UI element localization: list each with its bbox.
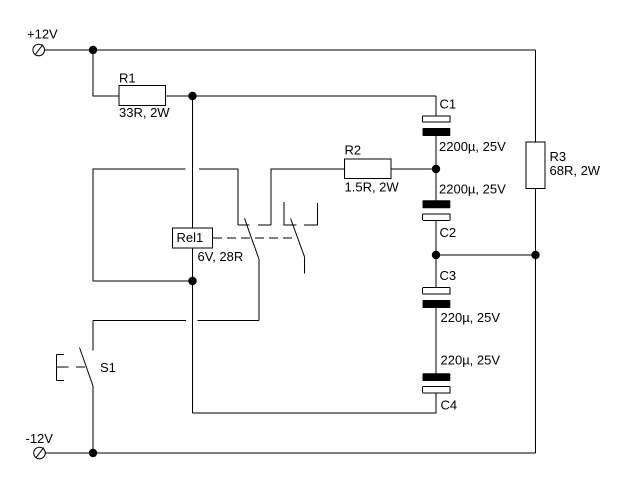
- wire C1 bottom to junction: [435, 136, 437, 201]
- relay contact 2 moving arm: [291, 219, 305, 258]
- wire from top rail down to R1 row: [93, 50, 119, 96]
- svg-text:C2: C2: [440, 225, 457, 240]
- relay contact 2 fixed terminal left: [284, 202, 296, 225]
- node junction C2-C3: [432, 251, 440, 259]
- svg-text:6V, 28R: 6V, 28R: [198, 249, 244, 264]
- wire left loop: [93, 169, 193, 281]
- svg-text:R1: R1: [119, 71, 136, 86]
- wire top rail: [45, 49, 536, 51]
- node junction coil bottom: [188, 277, 196, 285]
- wire R2 left: [271, 169, 345, 225]
- wire C2 bottom: [435, 220, 437, 255]
- svg-text:68R, 2W: 68R, 2W: [550, 163, 601, 178]
- svg-text:2200µ, 25V: 2200µ, 25V: [439, 139, 506, 154]
- relay contact 1 fixed terminal right: [258, 224, 271, 226]
- node junction R3 bottom: [531, 251, 539, 259]
- wire junction to C3: [435, 255, 437, 288]
- wire relay coil bottom down: [192, 248, 194, 413]
- wire R1 right to capacitor column: [166, 95, 436, 97]
- wire switch row left: [93, 320, 186, 322]
- svg-text:C3: C3: [440, 268, 457, 283]
- wire S1 bottom feed: [92, 386, 94, 453]
- capacitor C4: [423, 373, 451, 393]
- relay contact 2 fixed terminal right: [304, 203, 318, 225]
- relay contact 1 fixed terminal left foot: [238, 224, 249, 226]
- relay mechanical link dashed: [213, 237, 297, 239]
- resistor R2: [345, 159, 391, 179]
- switch S1 moving arm: [80, 348, 94, 387]
- wire right column lower: [535, 255, 537, 453]
- wire switch row right: [198, 320, 259, 322]
- node junction top-left: [89, 46, 97, 54]
- svg-text:220µ, 25V: 220µ, 25V: [441, 353, 501, 368]
- terminal -12V: [34, 447, 46, 459]
- wire right column upper: [535, 50, 537, 142]
- wire bottom rail: [45, 452, 535, 454]
- switch S1 pushbutton plunger: [57, 355, 86, 381]
- svg-text:33R, 2W: 33R, 2W: [119, 105, 170, 120]
- capacitor C1: [423, 116, 451, 136]
- node junction R1 right: [188, 92, 196, 100]
- wire S1 top feed: [92, 321, 94, 351]
- svg-text:1.5R, 2W: 1.5R, 2W: [345, 180, 400, 195]
- svg-text:R2: R2: [345, 143, 362, 158]
- svg-text:-12V: -12V: [26, 431, 54, 446]
- wire R3 bottom to junction: [535, 189, 537, 256]
- svg-text:C1: C1: [440, 97, 457, 112]
- resistor R3: [526, 142, 545, 189]
- svg-text:+12V: +12V: [27, 27, 58, 42]
- node junction R2 right: [432, 165, 440, 173]
- svg-text:220µ, 25V: 220µ, 25V: [441, 310, 501, 325]
- capacitor C3: [423, 288, 451, 308]
- wire left loop continued to contact: [199, 169, 238, 225]
- wire C3 to C4: [435, 308, 437, 374]
- wire contact 2 arm stub: [304, 257, 306, 273]
- wire R2 right: [391, 168, 436, 170]
- relay contact 1 moving arm: [245, 218, 259, 259]
- svg-text:Rel1: Rel1: [177, 230, 204, 245]
- wire relay coil top: [192, 96, 194, 228]
- resistor R1: [119, 86, 166, 106]
- node junction bottom-left: [89, 449, 97, 457]
- relay coil Rel1: [173, 228, 213, 248]
- wire contact 1 arm down: [258, 259, 260, 321]
- wire capacitor column top: [435, 96, 437, 116]
- wire middle row to R3 column: [436, 254, 536, 256]
- svg-text:C4: C4: [441, 398, 458, 413]
- svg-text:2200µ, 25V: 2200µ, 25V: [439, 182, 506, 197]
- capacitor C2: [423, 200, 451, 220]
- wire C4 bottom row: [193, 393, 437, 414]
- terminal +12V: [33, 44, 45, 56]
- svg-text:R3: R3: [550, 149, 567, 164]
- svg-text:S1: S1: [100, 360, 116, 375]
